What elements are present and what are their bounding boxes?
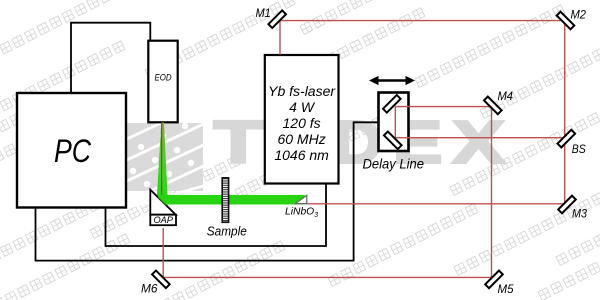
svg-text:1046 nm: 1046 nm xyxy=(274,147,329,163)
beam M3 to LiNbO3 xyxy=(307,203,565,205)
beam splitter BS xyxy=(557,130,575,148)
beam delay line to M4 xyxy=(395,106,491,108)
beam M2 to BS xyxy=(564,21,566,138)
delay line box xyxy=(379,93,409,152)
svg-text:M6: M6 xyxy=(141,282,158,296)
PC box xyxy=(17,93,126,208)
svg-text:OAP: OAP xyxy=(153,215,173,226)
delay line mirror top xyxy=(383,95,401,113)
svg-text:M3: M3 xyxy=(572,209,588,221)
mirror M1 xyxy=(268,10,286,28)
wire PC to laser xyxy=(106,184,327,247)
LiNbO3 crystal xyxy=(295,195,307,203)
mirror M4 xyxy=(484,97,502,115)
delay line translation arrow xyxy=(369,76,415,85)
svg-text:4 W: 4 W xyxy=(289,99,316,115)
svg-text:M4: M4 xyxy=(498,91,514,103)
OAP parabolic mirror xyxy=(150,190,176,226)
wire PC to EOD xyxy=(71,23,150,93)
svg-text:M2: M2 xyxy=(571,8,587,22)
beam BS to delay line xyxy=(395,137,564,139)
wire PC to delay line xyxy=(36,122,379,260)
mirror M6 xyxy=(152,270,170,288)
sample xyxy=(222,178,228,223)
mirror M5 xyxy=(485,271,503,289)
beam M5 to M6 xyxy=(163,276,491,278)
beam BS to M3 xyxy=(564,138,566,204)
laser parameters text xyxy=(268,83,336,163)
green beam EOD to OAP xyxy=(157,123,168,202)
svg-text:EOD: EOD xyxy=(155,73,172,84)
svg-text:LiNbO3: LiNbO3 xyxy=(285,207,318,220)
beam M1 to M2 xyxy=(280,20,565,22)
watermark: logo block with diagonal white stripes (decorative) xyxy=(112,100,210,209)
mirror M3 xyxy=(558,196,576,214)
delay line mirror bottom xyxy=(384,131,402,149)
svg-text:120 fs: 120 fs xyxy=(283,115,321,131)
svg-text:PC: PC xyxy=(54,133,91,169)
svg-text:Yb fs-laser: Yb fs-laser xyxy=(268,83,336,99)
green beam OAP to LiNbO3 xyxy=(152,195,305,205)
svg-text:60 MHz: 60 MHz xyxy=(277,131,325,147)
beam M4 to M5 xyxy=(491,107,493,278)
mirror M2 xyxy=(557,12,575,30)
beam laser to M1 xyxy=(163,21,565,278)
svg-text:Sample: Sample xyxy=(207,223,247,238)
svg-text:T: T xyxy=(214,110,263,176)
svg-text:M5: M5 xyxy=(498,282,514,296)
svg-text:BS: BS xyxy=(572,144,586,156)
svg-text:Delay Line: Delay Line xyxy=(363,155,425,171)
watermark: TYDEX gray letters (decorative) xyxy=(214,110,505,176)
EOD box xyxy=(148,41,177,123)
beam M6 to OAP xyxy=(162,228,164,277)
pump beam inside green cone xyxy=(161,123,163,200)
laser box xyxy=(265,55,339,184)
svg-text:M1: M1 xyxy=(256,6,271,20)
svg-text:X: X xyxy=(453,110,505,176)
beam inside delay line xyxy=(394,107,396,138)
OAP mirror edge over beam xyxy=(150,190,158,198)
